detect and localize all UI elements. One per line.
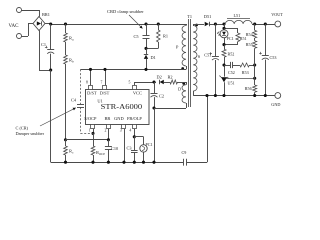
- resistor R1: [157, 24, 169, 48]
- wire Ra to Rb: [65, 42, 67, 55]
- resistor R53: [240, 63, 255, 75]
- resistor Rocp: [91, 133, 105, 162]
- svg-text:C53: C53: [270, 55, 277, 60]
- capacitor C52: [224, 62, 240, 75]
- svg-text:BR1: BR1: [42, 12, 50, 17]
- diode D51: [204, 14, 216, 26]
- svg-text:D/ST: D/ST: [100, 90, 110, 95]
- svg-text:R52: R52: [228, 52, 235, 57]
- wire clamp node: [146, 48, 158, 50]
- op-amp U1 STR-A6000: [84, 86, 149, 129]
- wire bridge negative return: [39, 31, 51, 71]
- svg-text:D1: D1: [151, 55, 156, 60]
- wire secondary ground rail: [193, 95, 275, 97]
- svg-text:R1: R1: [163, 34, 168, 39]
- svg-text:7: 7: [101, 81, 103, 85]
- transformer core: [189, 19, 191, 107]
- diode PC1 photocoupler LED: [217, 28, 234, 44]
- node rail U51 anode: [222, 94, 225, 97]
- wire bridge output to bus: [45, 23, 51, 26]
- wire pin1 S OCP stub: [93, 129, 95, 133]
- wire secondary top: [193, 24, 204, 26]
- transistor PC1 phototransistor: [140, 142, 153, 152]
- svg-text:C (CR): C (CR): [16, 126, 29, 131]
- svg-text:C51: C51: [204, 52, 211, 57]
- svg-text:PC1: PC1: [227, 36, 234, 41]
- capacitor C2: [147, 82, 164, 108]
- resistor Rb: [64, 55, 74, 64]
- svg-text:C3: C3: [127, 146, 132, 151]
- node LED bottom junction: [222, 43, 225, 46]
- resistor Ra: [64, 24, 74, 42]
- diode D1: [144, 48, 156, 69]
- svg-text:C4: C4: [71, 98, 77, 103]
- resistor R56: [245, 85, 257, 96]
- node bus C5: [144, 22, 147, 25]
- pin number 1: [89, 129, 91, 133]
- node rail Rocp: [91, 161, 94, 164]
- pin number 7: [101, 81, 103, 85]
- pin number 8: [86, 81, 88, 85]
- node bus R1: [157, 22, 160, 25]
- svg-text:C1: C1: [41, 42, 46, 47]
- svg-text:C10: C10: [111, 146, 118, 151]
- svg-text:R54: R54: [246, 32, 253, 37]
- svg-text:VAC: VAC: [9, 24, 20, 29]
- wire pin4 FB stub: [134, 129, 136, 137]
- resistor R2: [168, 75, 187, 84]
- node VOUT terminal: [271, 12, 283, 27]
- node FB junction: [133, 135, 136, 138]
- svg-text:GND: GND: [114, 116, 124, 121]
- diode D2: [157, 75, 170, 85]
- resistor Rc: [64, 140, 74, 162]
- node secondary polarity dot: [195, 24, 198, 27]
- svg-text:PC1: PC1: [146, 142, 153, 147]
- wire C2 to primary rail: [154, 108, 156, 162]
- wire C1 to primary rail: [50, 70, 52, 162]
- svg-text:D51: D51: [204, 14, 211, 19]
- svg-text:C9: C9: [182, 150, 187, 155]
- node clamp junction: [144, 47, 147, 50]
- node rail C2 return: [152, 161, 155, 164]
- node divider comp junction: [253, 63, 256, 66]
- wire divider to R56: [254, 65, 256, 85]
- svg-text:C2: C2: [159, 94, 164, 99]
- wire primary ground rail: [51, 162, 183, 164]
- op-amp U51 shunt regulator: [219, 76, 234, 96]
- inductor L51: [225, 13, 252, 24]
- pin number 3: [120, 129, 122, 133]
- transformer T1 secondary winding S: [193, 24, 201, 96]
- wire bottom AC terminal to bridge: [22, 24, 34, 37]
- node primary polarity dot: [181, 67, 184, 70]
- capacitor C51: [204, 24, 219, 96]
- wire feedback branch split: [224, 24, 238, 33]
- node R54 junction: [253, 22, 256, 25]
- svg-text:R2: R2: [168, 75, 173, 80]
- resistor R52: [222, 45, 234, 77]
- svg-text:1: 1: [89, 129, 91, 133]
- svg-text:S/OCP: S/OCP: [84, 116, 97, 121]
- svg-text:VOUT: VOUT: [271, 12, 283, 17]
- node VAC terminal top: [17, 8, 22, 13]
- svg-text:BR: BR: [104, 116, 110, 121]
- node VAC terminal bottom: [17, 34, 22, 39]
- wire pin2 BR stub: [108, 129, 110, 140]
- node rail C10: [107, 161, 110, 164]
- svg-text:D: D: [178, 86, 181, 91]
- svg-text:CRD clamp snubber: CRD clamp snubber: [107, 9, 144, 14]
- svg-text:R53: R53: [242, 70, 249, 75]
- node rail C9: [205, 94, 208, 97]
- svg-text:2: 2: [105, 129, 107, 133]
- node C51 junction: [214, 22, 217, 25]
- node rail GND pin: [122, 161, 125, 164]
- wire L51 to VOUT: [252, 24, 275, 26]
- node compensation tap: [222, 63, 225, 66]
- node rail C3: [133, 161, 136, 164]
- transformer T1 auxiliary winding D: [178, 82, 187, 108]
- svg-text:R55: R55: [246, 42, 253, 47]
- svg-text:T1: T1: [187, 14, 192, 19]
- resistor R55: [246, 38, 257, 65]
- node BR divider junction: [64, 138, 67, 141]
- label VAC: [9, 24, 20, 29]
- bridge rectifier BR1: [33, 12, 50, 31]
- wire PC1 emitter to rail: [143, 152, 145, 162]
- pin number 4: [129, 129, 131, 133]
- node rail C53: [264, 94, 267, 97]
- node C1 return junction: [49, 68, 52, 71]
- node rail PC1 emitter: [142, 161, 145, 164]
- svg-text:L51: L51: [234, 13, 241, 18]
- node reference junction: [253, 77, 256, 80]
- node drain clamp: [144, 68, 147, 71]
- capacitor C10: [105, 140, 118, 162]
- node VCC C2 junction: [152, 80, 155, 83]
- capacitor C5: [134, 24, 150, 48]
- svg-text:D2: D2: [157, 75, 162, 80]
- wire BR node to pin 2 column: [66, 139, 109, 141]
- resistor R54: [246, 24, 257, 38]
- svg-text:VCC: VCC: [133, 90, 142, 95]
- svg-text:C52: C52: [228, 70, 235, 75]
- node C53 junction: [264, 22, 267, 25]
- node bus Ra: [64, 22, 67, 25]
- node rail R56: [253, 94, 256, 97]
- wire VCC line: [134, 82, 156, 85]
- node bus C1: [49, 22, 52, 25]
- svg-text:U51: U51: [228, 81, 235, 86]
- svg-text:D/ST: D/ST: [87, 90, 97, 95]
- svg-text:5: 5: [129, 81, 131, 85]
- wire Rb to BR node: [65, 64, 67, 140]
- node C2 bottom junction: [152, 106, 155, 109]
- wire FB to PC1 collector: [134, 137, 143, 145]
- annotation C CR Damper snubber: [16, 108, 76, 136]
- node rail Rc: [64, 161, 67, 164]
- capacitor C4 damper: [71, 69, 93, 133]
- capacitor C3: [127, 137, 138, 162]
- svg-text:STR-A6000: STR-A6000: [101, 102, 143, 111]
- wire pin3 GND to rail: [124, 129, 126, 162]
- svg-text:4: 4: [129, 129, 131, 133]
- node GND terminal: [271, 93, 280, 107]
- svg-text:R51: R51: [240, 36, 247, 41]
- svg-text:3: 3: [120, 129, 122, 133]
- svg-text:GND: GND: [271, 102, 280, 107]
- node S OCP damper junction: [91, 132, 94, 135]
- pin number 5: [129, 81, 131, 85]
- node BR pin junction: [107, 138, 110, 141]
- transformer T1 primary winding P: [176, 24, 187, 69]
- node branch split: [222, 27, 225, 30]
- node auxiliary polarity dot: [182, 82, 185, 85]
- svg-text:Damper snubber: Damper snubber: [16, 131, 45, 136]
- wire U51 reference: [226, 78, 255, 80]
- wire rectified secondary bus: [215, 24, 225, 26]
- svg-text:R56: R56: [245, 86, 252, 91]
- node feedback branch junction: [222, 22, 225, 25]
- wire drain line: [81, 69, 187, 85]
- svg-text:C5: C5: [134, 34, 139, 39]
- capacitor C53: [259, 24, 276, 96]
- capacitor C9: [182, 96, 208, 166]
- wire auxiliary return: [154, 108, 186, 110]
- resistor R51: [224, 33, 247, 45]
- transformer T1 label: [187, 14, 192, 19]
- node drain pin 7: [103, 68, 106, 71]
- pin number 2: [105, 129, 107, 133]
- wire main DC bus: [51, 24, 186, 26]
- node rail C51: [214, 94, 217, 97]
- node drain pin 8: [89, 68, 92, 71]
- wire top AC terminal to bridge: [22, 10, 40, 17]
- svg-text:8: 8: [86, 81, 88, 85]
- annotation CRD clamp snubber: [107, 9, 144, 29]
- svg-text:FB/OLP: FB/OLP: [127, 116, 142, 121]
- capacitor C1: [41, 24, 54, 70]
